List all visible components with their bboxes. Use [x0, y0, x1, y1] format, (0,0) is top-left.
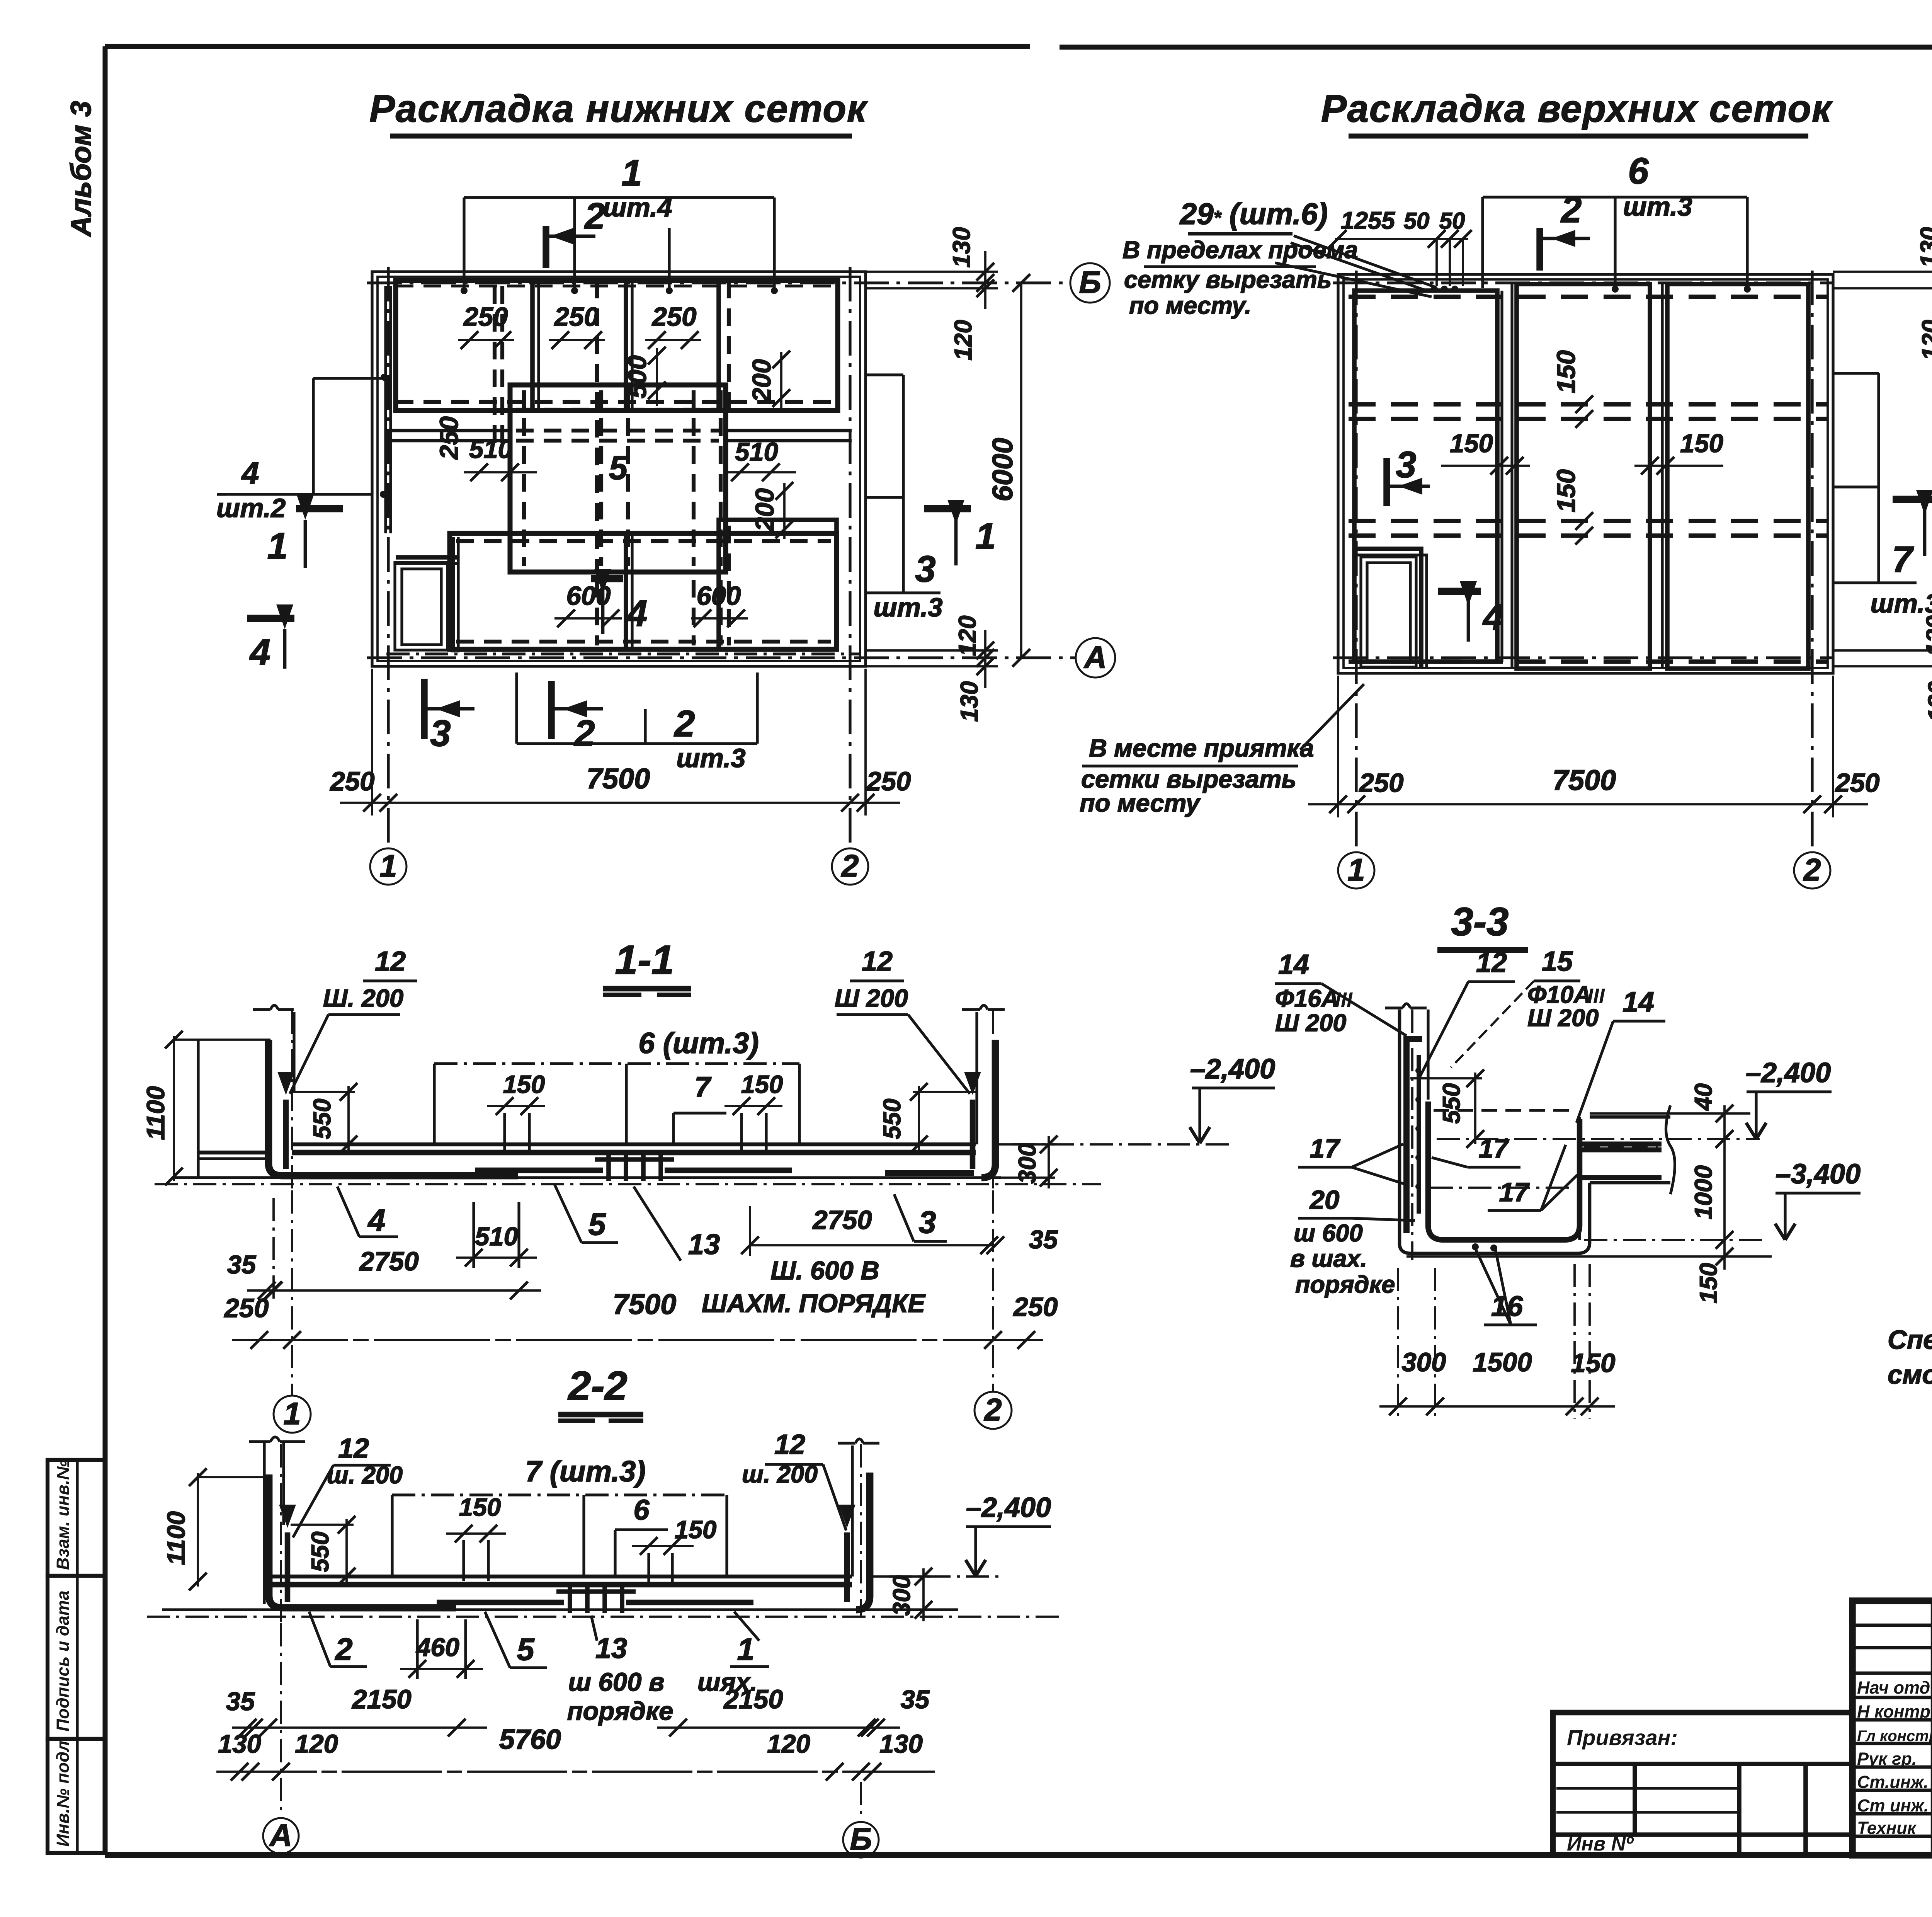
plan1 outer slab edge [372, 272, 866, 666]
sec11 right wall break symbol [962, 1008, 980, 1011]
svg-text:15: 15 [1542, 946, 1573, 977]
svg-text:1: 1 [737, 1632, 754, 1667]
svg-text:12: 12 [338, 1433, 369, 1464]
sec22 bottom mesh segments [437, 1600, 564, 1605]
plan1 bottom-right mesh 3 [719, 520, 837, 649]
svg-text:в шах.: в шах. [1290, 1245, 1367, 1272]
svg-text:1: 1 [621, 152, 642, 194]
svg-text:250: 250 [866, 766, 911, 796]
sec22 lap zone 13 bars [568, 1582, 572, 1613]
sec11 right wall axis dash-dot (grid 2) [992, 1011, 994, 1190]
sheet frame left border [103, 46, 108, 1855]
svg-text:2750: 2750 [812, 1205, 872, 1235]
svg-text:3: 3 [1396, 444, 1416, 485]
sec22 base dash-dot [147, 1616, 1059, 1618]
svg-text:460: 460 [415, 1633, 459, 1662]
sec11 bent mesh 4 left (thick L) [269, 1040, 518, 1176]
svg-text:510: 510 [475, 1222, 518, 1251]
plan1 right edge dims 130/120 top [866, 271, 998, 273]
svg-text:4: 4 [1482, 597, 1503, 638]
plan1 right bracket mesh 3 [902, 375, 905, 593]
plan1 grid axis vertical 1 [387, 267, 389, 848]
svg-text:Гл констр: Гл констр [1857, 1728, 1932, 1745]
svg-text:250: 250 [435, 416, 464, 460]
svg-text:250: 250 [1012, 1292, 1058, 1322]
svg-text:35: 35 [1029, 1225, 1058, 1254]
svg-text:ш 600 в: ш 600 в [568, 1668, 664, 1697]
plan2 grid axis А [1333, 656, 1833, 659]
sec22 right wall break symbol [838, 1442, 855, 1444]
svg-text:4: 4 [367, 1203, 385, 1238]
svg-text:1: 1 [283, 1396, 301, 1431]
svg-text:130: 130 [948, 227, 975, 267]
svg-text:ш 600: ш 600 [1294, 1220, 1363, 1247]
svg-text:4: 4 [241, 456, 259, 491]
svg-text:600: 600 [696, 581, 741, 611]
sheet frame top border [105, 44, 1030, 49]
svg-text:150: 150 [1552, 350, 1581, 393]
svg-text:200: 200 [750, 488, 779, 532]
svg-text:2: 2 [573, 713, 595, 754]
svg-text:300: 300 [1401, 1347, 1446, 1377]
plan2 grid axes verticals [1355, 271, 1357, 852]
sec22 bent mesh 2 left thick L [269, 1474, 456, 1608]
svg-text:1-1: 1-1 [615, 937, 674, 983]
plan2 dashed mesh rows [1349, 295, 1828, 299]
svg-text:14: 14 [1622, 986, 1654, 1018]
plan1 grid axis А horizontal [367, 656, 1076, 659]
svg-text:130: 130 [218, 1730, 261, 1759]
svg-text:12: 12 [774, 1429, 805, 1460]
svg-text:7500: 7500 [613, 1288, 677, 1320]
svg-text:150: 150 [1571, 1348, 1615, 1378]
sec11 bottom dim 250 7500 250 [232, 1339, 1043, 1341]
svg-text:III: III [1587, 984, 1605, 1008]
plan2 section mark 2 top [1536, 228, 1543, 271]
sec11 grid line 1 [291, 1190, 293, 1395]
svg-text:Альбом 3: Альбом 3 [65, 101, 97, 237]
svg-text:Ш 200: Ш 200 [835, 984, 908, 1012]
svg-text:6: 6 [1628, 150, 1649, 192]
svg-text:Ст.инж.: Ст.инж. [1857, 1772, 1929, 1792]
sec11 base dash-dot line [155, 1183, 1101, 1185]
svg-text:по месту.: по месту. [1129, 292, 1252, 319]
svg-text:550: 550 [879, 1098, 906, 1139]
sec22 grid line Б [860, 1782, 862, 1820]
svg-text:150: 150 [1695, 1263, 1722, 1303]
svg-text:2150: 2150 [723, 1684, 783, 1714]
sec22 wall axis dash-dot left (grid А) [280, 1444, 282, 1623]
svg-text:35: 35 [227, 1250, 257, 1279]
svg-text:А: А [269, 1818, 293, 1853]
plan1 grid axis Б horizontal [367, 281, 1070, 284]
svg-text:120: 120 [1922, 615, 1932, 656]
plan2 leader lines to cut mesh [1294, 236, 1434, 287]
sec11 top mesh lines [292, 1142, 976, 1146]
sec22 right wall axis dash-dot [860, 1444, 862, 1616]
svg-text:шт.3: шт.3 [1870, 589, 1932, 618]
plan1 section mark 4 left-bottom [247, 615, 294, 622]
sec33 level dash-dot -2400 [1437, 1138, 1760, 1140]
svg-text:шт.3: шт.3 [676, 743, 745, 773]
title block left table columns [1931, 1601, 1932, 1855]
svg-text:по месту: по месту [1080, 789, 1201, 817]
svg-text:250: 250 [463, 302, 508, 332]
plan2 mesh panel 7 right [1667, 284, 1808, 669]
plan2 right edge dims 120/130 bottom [1833, 649, 1932, 652]
svg-text:ш. 200: ш. 200 [327, 1462, 403, 1489]
plan2 section mark 4 bottom [1438, 588, 1481, 595]
plan2 mesh panel 6 left [1354, 291, 1497, 662]
svg-text:7500: 7500 [587, 763, 650, 795]
plan2 bottom dim 250-7500-250 [1308, 803, 1868, 805]
svg-text:шт.3: шт.3 [1623, 192, 1692, 221]
svg-text:1: 1 [379, 849, 397, 884]
title block left table rows [1852, 1624, 1932, 1627]
secondary table Привязан [1553, 1713, 1852, 1855]
plan1 section mark 2 top [543, 226, 549, 268]
svg-text:1255: 1255 [1341, 207, 1395, 234]
svg-text:4: 4 [249, 632, 270, 673]
sec22 left wall break symbol [249, 1440, 270, 1443]
svg-text:шт.2: шт.2 [216, 493, 286, 523]
svg-text:120: 120 [767, 1730, 810, 1759]
title block outer frame [1852, 1601, 1932, 1855]
plan2 inner slab edge [1344, 279, 1828, 668]
svg-text:2: 2 [1560, 189, 1582, 230]
svg-text:порядке: порядке [567, 1697, 673, 1726]
svg-text:2150: 2150 [351, 1684, 412, 1714]
sec11 right wall [975, 1012, 978, 1144]
svg-text:1100: 1100 [162, 1511, 190, 1565]
svg-text:50: 50 [1439, 208, 1465, 234]
plan1 grid axis vertical 2 [849, 267, 851, 848]
plan1 bottom mesh band (meshes 2) [450, 533, 837, 649]
plan2 bracket 6 шт.3 top [1483, 196, 1747, 198]
svg-text:Ст инж.: Ст инж. [1857, 1796, 1929, 1815]
svg-text:150: 150 [741, 1070, 783, 1098]
svg-text:Спецификацию арматурных изде: Спецификацию арматурных изделий [1888, 1325, 1932, 1355]
sec22 bottom dims 130 120 5760 120 130 [216, 1771, 935, 1773]
plan2 grid axis Б [1333, 281, 1833, 284]
plan2 grid circle 1 [1338, 852, 1374, 889]
svg-text:шт.4: шт.4 [603, 192, 672, 222]
svg-text:2: 2 [983, 1393, 1002, 1427]
sec11 slab bottom line [176, 1176, 1001, 1179]
svg-text:130: 130 [879, 1730, 923, 1759]
svg-text:шт.3: шт.3 [873, 592, 942, 622]
svg-text:7500: 7500 [1553, 764, 1616, 796]
plan1 mid band lines (mesh 4 / 3 edges) [386, 429, 510, 432]
svg-text:5: 5 [517, 1632, 534, 1667]
svg-text:Ш. 200: Ш. 200 [323, 984, 403, 1012]
plan1 bottom dim 250-7500-250 [340, 802, 900, 804]
svg-text:Ф16А: Ф16А [1275, 985, 1339, 1012]
sec22 left wall rebar 12 [285, 1532, 291, 1602]
svg-text:–2,400: –2,400 [966, 1492, 1051, 1523]
svg-text:510: 510 [469, 435, 512, 464]
plan1 mesh4 bracket left [312, 378, 315, 494]
svg-text:1000: 1000 [1690, 1165, 1717, 1219]
svg-text:14: 14 [1278, 949, 1309, 980]
svg-text:120: 120 [950, 320, 977, 360]
plan2 pit (приямок) [1361, 557, 1416, 667]
sec11 right wall rebar 12 with up arrow [970, 1100, 976, 1169]
plan1 bracket mesh 1 (шт.4) [464, 196, 774, 199]
plan2 section mark 3 left [1383, 458, 1390, 506]
svg-text:250: 250 [1358, 768, 1403, 798]
svg-text:12: 12 [862, 946, 893, 977]
plan1 left double edge [384, 286, 387, 533]
plan2 outer slab edge [1338, 274, 1833, 673]
svg-text:17: 17 [1499, 1177, 1530, 1207]
svg-text:50: 50 [1404, 208, 1430, 234]
svg-text:Подпись и дата: Подпись и дата [53, 1590, 73, 1731]
svg-text:Н контр.: Н контр. [1857, 1702, 1932, 1721]
svg-text:2-2: 2-2 [567, 1363, 627, 1409]
svg-text:250: 250 [553, 302, 599, 332]
sec11 adjacent slab left edge [197, 1039, 199, 1178]
sec33 floor rebar dashes [1584, 1145, 1658, 1149]
svg-text:Ш. 600 В: Ш. 600 В [770, 1256, 879, 1285]
svg-text:3-3: 3-3 [1451, 899, 1509, 944]
left stamp box Взам. инв.№ [48, 1460, 105, 1576]
sec11 grid line 2 [992, 1190, 994, 1391]
svg-text:12: 12 [1476, 947, 1507, 978]
svg-text:III: III [1335, 988, 1353, 1011]
svg-text:5: 5 [609, 449, 628, 487]
svg-text:40: 40 [1690, 1083, 1717, 1111]
plan1 mesh dashed overlap verticals [493, 286, 497, 448]
svg-text:250: 250 [1834, 768, 1879, 798]
sec22 top mesh lines [270, 1575, 852, 1578]
plan1 top mesh band (meshes 1) [396, 281, 838, 410]
svg-text:Привязан:: Привязан: [1567, 1725, 1678, 1750]
svg-text:–2,400: –2,400 [1190, 1054, 1275, 1084]
svg-text:3: 3 [915, 548, 935, 590]
plan1 mesh5 internal dashed verticals [522, 390, 526, 566]
left stamp box Подпись и дата [48, 1576, 105, 1739]
svg-text:1: 1 [1347, 853, 1365, 887]
svg-text:В пределах проема: В пределах проема [1122, 237, 1358, 264]
plan1 grid circle 2 [832, 848, 868, 885]
svg-text:150: 150 [1552, 469, 1581, 512]
plan1 grid circle А [1076, 638, 1115, 678]
sheet frame bottom border [105, 1852, 1932, 1858]
svg-text:Б: Б [850, 1822, 872, 1857]
sec22 left wall inner face [282, 1443, 285, 1525]
sec11 lap zone 13 vertical bars [606, 1150, 611, 1181]
plan2 right edge dims 130/120 top [1833, 271, 1932, 273]
plan2 grid circle 2 [1794, 852, 1830, 889]
svg-text:150: 150 [503, 1070, 545, 1098]
sec22 right wall rebar 12 [844, 1532, 850, 1602]
plan1 section mark 2 bottom [548, 681, 554, 739]
svg-text:130: 130 [1923, 681, 1932, 722]
svg-text:Нач отд: Нач отд [1857, 1678, 1930, 1697]
plan1 section mark 3 inside [421, 679, 427, 739]
sec33 level dash inside pit [1434, 1109, 1573, 1112]
svg-text:смотрите на листе 60.: смотрите на листе 60. [1888, 1360, 1932, 1389]
svg-text:6 (шт.3): 6 (шт.3) [638, 1027, 759, 1060]
plan1 pit (приямок) [395, 562, 447, 650]
svg-text:200: 200 [747, 359, 776, 403]
svg-text:250: 250 [329, 766, 374, 796]
sec33 wall rebar 14 thick [1403, 1036, 1410, 1233]
svg-text:сетку вырезать: сетку вырезать [1124, 266, 1332, 293]
sec22 right wall [851, 1445, 854, 1577]
svg-text:порядке: порядке [1295, 1271, 1395, 1298]
svg-text:3: 3 [918, 1205, 936, 1240]
sec33 pit rebar U cage [1428, 1102, 1580, 1240]
plan1 grid circle 1 [370, 848, 406, 885]
svg-text:550: 550 [309, 1098, 336, 1139]
plan1 inner slab edge [378, 277, 860, 661]
sec22 slab bottom line [162, 1608, 958, 1611]
svg-text:Ш 200: Ш 200 [1527, 1004, 1599, 1032]
svg-text:1500: 1500 [1473, 1347, 1532, 1377]
sec11 left wall rebar 12 with up arrow [283, 1100, 289, 1169]
svg-text:2: 2 [673, 703, 695, 744]
svg-text:В месте приятка: В месте приятка [1089, 734, 1314, 762]
plan1 dim 6000 [1020, 283, 1022, 658]
svg-text:130: 130 [1916, 227, 1932, 267]
sec33 right step and floor slab [1590, 1181, 1670, 1185]
svg-text:150: 150 [1680, 429, 1723, 458]
svg-text:6: 6 [633, 1494, 650, 1526]
svg-text:250: 250 [651, 302, 696, 332]
svg-text:150: 150 [1450, 429, 1493, 458]
svg-text:Техник: Техник [1857, 1818, 1917, 1838]
svg-text:Б: Б [1079, 265, 1101, 300]
svg-text:510: 510 [735, 438, 778, 466]
svg-text:13: 13 [688, 1228, 720, 1260]
svg-text:ш. 200: ш. 200 [742, 1461, 818, 1488]
plan1 mesh dashed verticals lower [595, 580, 599, 645]
plan2 section mark 1 right [1893, 496, 1932, 503]
svg-text:150: 150 [459, 1493, 501, 1521]
plan1 right edge dims 120/130 bottom [866, 649, 998, 652]
plan1 mesh1 vertical edges [530, 281, 535, 410]
svg-text:1100: 1100 [141, 1086, 170, 1140]
svg-text:2750: 2750 [359, 1246, 419, 1276]
svg-text:2: 2 [1803, 853, 1821, 887]
sec33 wall axis dash-dot [1411, 1010, 1413, 1260]
svg-text:7: 7 [1892, 539, 1914, 580]
svg-text:35: 35 [226, 1687, 255, 1716]
svg-text:Рук гр.: Рук гр. [1857, 1749, 1917, 1769]
plan1 bottom dashed row [386, 652, 860, 655]
sec33 wall mesh 12 dots bar [1417, 1055, 1421, 1214]
plan1 section mark 1 right [924, 505, 971, 512]
svg-text:120: 120 [295, 1730, 338, 1759]
svg-text:1: 1 [267, 525, 288, 567]
svg-text:35: 35 [901, 1685, 930, 1714]
sec22 left wall outer face [263, 1443, 265, 1604]
svg-text:550: 550 [307, 1531, 334, 1572]
svg-text:Раскладка нижних сеток: Раскладка нижних сеток [369, 87, 868, 130]
svg-text:–3,400: –3,400 [1776, 1159, 1861, 1190]
sec33 wall break symbol top [1385, 1006, 1403, 1009]
svg-text:–2,400: –2,400 [1746, 1057, 1831, 1088]
svg-text:120: 120 [954, 615, 981, 656]
svg-text:17: 17 [1479, 1134, 1510, 1163]
svg-text:2: 2 [584, 196, 605, 237]
svg-text:29* (шт.6): 29* (шт.6) [1179, 197, 1328, 231]
svg-text:250: 250 [223, 1293, 269, 1323]
svg-text:Ш 200: Ш 200 [1275, 1010, 1346, 1037]
plan1 section mark 4 inside [591, 575, 623, 582]
sec11 left wall break symbol [253, 1008, 270, 1011]
svg-text:150: 150 [675, 1515, 716, 1544]
svg-text:13: 13 [595, 1632, 627, 1664]
svg-text:Взам. инв.№: Взам. инв.№ [53, 1460, 73, 1570]
svg-text:7 (шт.3): 7 (шт.3) [525, 1455, 646, 1488]
svg-text:2: 2 [840, 849, 859, 884]
svg-text:Инв Nº: Инв Nº [1567, 1833, 1634, 1855]
svg-text:1: 1 [975, 516, 996, 557]
plan1 centre mesh 5 [510, 385, 726, 572]
svg-text:7: 7 [694, 1071, 712, 1103]
sec33 wall inner face [1427, 1010, 1429, 1100]
svg-text:А: А [1083, 640, 1107, 675]
leader from annotation to pit [1300, 684, 1364, 750]
plan2 right bracket mesh 7 [1877, 373, 1880, 583]
svg-text:130: 130 [956, 681, 983, 722]
sec33 pit concrete outline [1400, 1183, 1590, 1253]
plan1 grid circle Б [1070, 263, 1110, 303]
svg-text:12: 12 [375, 946, 406, 977]
svg-text:6000: 6000 [986, 438, 1019, 502]
svg-text:2: 2 [334, 1632, 352, 1667]
svg-text:4: 4 [626, 593, 647, 634]
sec33 wall outer face [1398, 1010, 1401, 1244]
svg-text:Раскладка верхних сеток: Раскладка верхних сеток [1321, 87, 1833, 130]
svg-text:ШАХМ. ПОРЯДКЕ: ШАХМ. ПОРЯДКЕ [702, 1289, 926, 1318]
svg-text:17: 17 [1310, 1134, 1341, 1163]
sec11 bottom mesh segments [475, 1168, 603, 1173]
sec22 grid line А [280, 1623, 282, 1817]
svg-text:5760: 5760 [499, 1724, 561, 1755]
svg-text:120: 120 [1917, 320, 1932, 360]
svg-text:500: 500 [623, 355, 652, 398]
plan1 bracket шт.3 bottom (meshes 2) [517, 742, 757, 745]
svg-text:550: 550 [1438, 1083, 1465, 1124]
svg-text:5: 5 [588, 1207, 606, 1242]
svg-text:Инв.№ подл.: Инв.№ подл. [53, 1736, 73, 1847]
sec11 wall axis dash-dot left (grid 1) [291, 1011, 293, 1190]
sec11 left wall inner face [293, 1012, 295, 1092]
plan2 mesh panel 6 middle [1517, 284, 1650, 669]
left stamp box Инв.№ подл. [48, 1739, 105, 1853]
svg-text:3: 3 [430, 713, 451, 754]
plan1 section mark 1 left [296, 505, 343, 512]
svg-text:20: 20 [1309, 1185, 1340, 1215]
